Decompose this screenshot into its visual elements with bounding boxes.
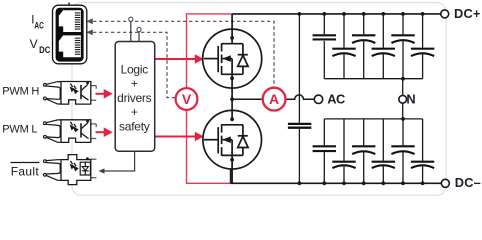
svg-text:N: N [406,92,415,107]
svg-text:Logic: Logic [121,63,149,77]
svg-text:V: V [30,37,38,51]
svg-text:DC–: DC– [455,175,481,190]
svg-text:PWM H: PWM H [2,85,39,97]
svg-text:+: + [131,77,138,91]
svg-text:V: V [182,91,192,107]
svg-text:AC: AC [327,92,345,107]
svg-text:DC+: DC+ [454,6,481,21]
svg-text:PWM L: PWM L [2,124,37,136]
svg-text:+: + [131,105,138,119]
svg-text:DC: DC [39,45,51,55]
svg-text:drivers: drivers [117,91,152,105]
svg-text:A: A [269,91,279,107]
svg-text:safety: safety [119,119,150,133]
svg-text:Fault: Fault [11,164,40,178]
svg-text:AC: AC [34,21,44,31]
